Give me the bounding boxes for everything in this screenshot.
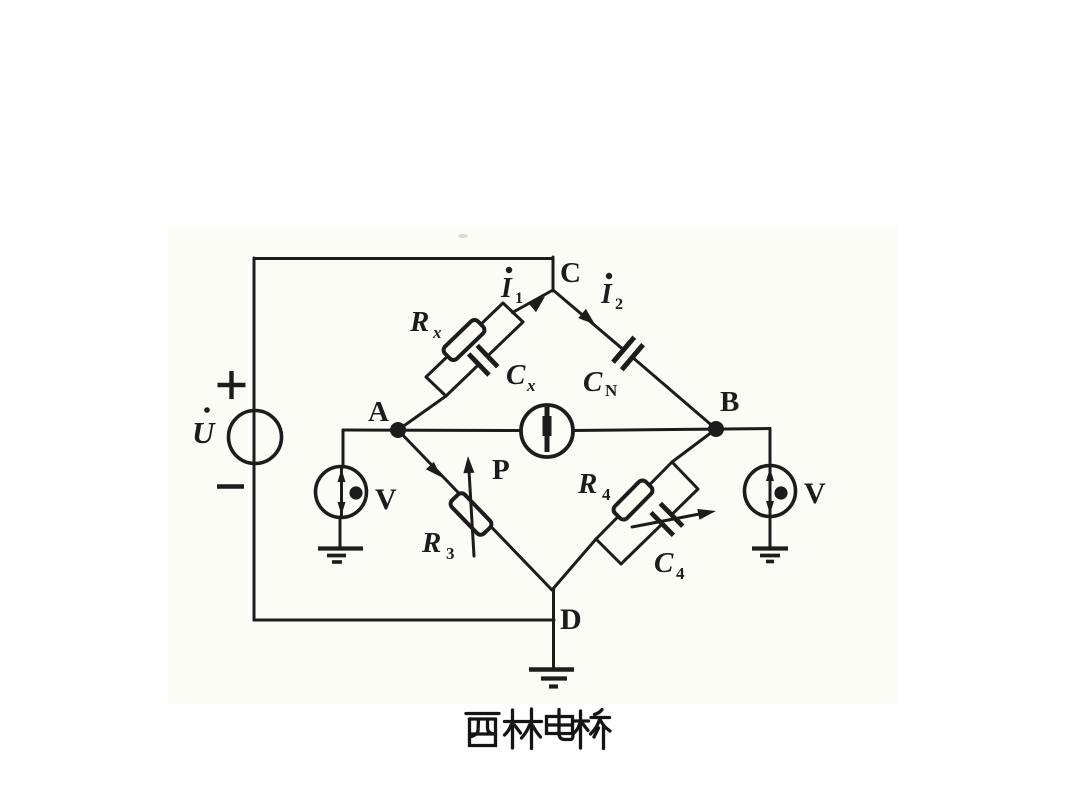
svg-text:C: C [654,547,674,579]
wire stub into node C [552,257,555,291]
left V meter circle [316,467,367,518]
svg-text:R: R [577,468,597,500]
capacitor C4 plates [660,503,682,526]
wire A row horizontal [343,429,521,433]
right V dot [774,486,787,499]
plus sign [218,383,246,387]
wire loop to D [552,539,596,590]
detector P circle [521,405,573,457]
svg-text:A: A [368,396,389,428]
right V meter circle [745,466,796,517]
capacitor Cx gap mask [475,352,492,369]
right V needle [769,467,772,515]
svg-text:C: C [560,257,581,289]
right ground bars [752,546,788,550]
minus sign [217,484,244,489]
wire CN to B [632,357,716,429]
svg-text:V: V [804,477,826,510]
left ground stem [339,517,342,548]
wire B to R4-C4 loop [672,429,716,462]
capacitor Cx plates [469,354,489,375]
wire A to D diagonal [398,430,552,590]
svg-text:N: N [605,381,618,400]
svg-text:2: 2 [615,296,623,313]
left ground bars [318,546,363,550]
node A junction dot [390,422,406,438]
svg-text:D: D [560,603,582,636]
right ground stem [769,516,772,548]
R3 variable arrow [469,462,475,556]
R4-C4 loop frame [596,462,698,564]
wire loop to C [513,290,554,313]
svg-text:R: R [409,306,429,338]
svg-text:4: 4 [602,485,611,504]
svg-text:C: C [583,366,603,398]
wire top horizontal [254,257,553,260]
wire bottom horizontal [254,619,554,622]
svg-text:I: I [500,273,513,304]
svg-text:1: 1 [515,290,523,307]
voltage source U circle [229,411,282,464]
svg-text:C: C [506,359,526,391]
svg-text:R: R [421,527,441,559]
svg-text:P: P [492,454,510,486]
detector P needle [545,407,550,452]
wire left vertical (source branch) [253,258,256,620]
svg-text:V: V [375,483,397,516]
wire A to Rx-Cx loop [398,396,446,430]
svg-text:I: I [600,279,613,310]
left V needle [340,468,343,516]
capacitor CN plates [613,337,634,362]
svg-text:3: 3 [446,544,455,563]
resistor R3 box [449,491,494,537]
D ground bars [529,667,574,672]
arrow on A-D [426,462,441,477]
speck [458,234,468,238]
Rx-Cx loop frame [426,303,523,396]
current arrow I2 [578,309,595,325]
svg-text:x: x [432,323,442,342]
svg-text:U: U [192,415,216,450]
caption xi lin dian qiao [466,712,499,715]
current arrow I1 [528,297,545,313]
left V dot [349,486,362,499]
C4 variable arrow [632,514,702,528]
svg-text:x: x [526,376,536,395]
wire right B stub [769,429,772,467]
svg-text:B: B [720,386,739,418]
capacitor C4 gap mask [658,511,676,529]
wire D vertical [552,590,555,668]
svg-text:4: 4 [676,564,685,583]
scan paper tint [168,226,898,704]
wire C to CN plate [553,290,624,350]
resistor Rx box [442,318,487,362]
resistor R4 box [612,478,655,521]
node B junction dot [708,421,724,437]
wire left V stub down [342,430,345,467]
